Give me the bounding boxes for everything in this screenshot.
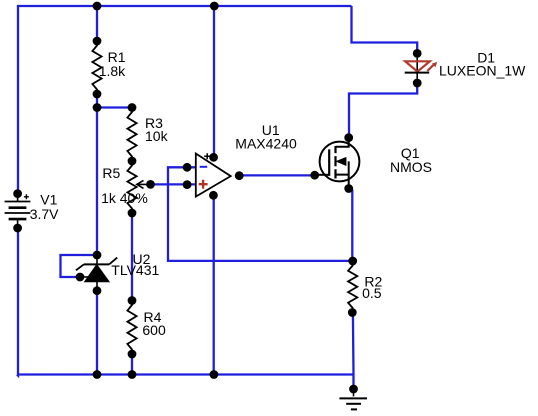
svg-text:NMOS: NMOS (390, 159, 432, 175)
wire op-amp output to Q1 gate (239, 174, 315, 176)
node Q1 drain (344, 133, 353, 142)
wire top rail corner to D1 anode (352, 6, 418, 53)
node bottom rail / op-amp supply (210, 370, 219, 379)
svg-text:TLV431: TLV431 (111, 262, 159, 278)
op-amp U1 (196, 153, 231, 196)
node bottom rail / U2 branch (93, 370, 102, 379)
node R4 top pin (128, 296, 137, 305)
LED D1 (405, 55, 438, 82)
resistor R2 (348, 261, 357, 313)
wire left rail upper (17, 5, 19, 194)
node ground junction (349, 385, 358, 394)
node R3 top pin (128, 103, 137, 112)
wire R5 wiper to op-amp plus input (151, 183, 196, 185)
wire left rail lower (17, 228, 18, 376)
svg-text:10k: 10k (145, 128, 169, 144)
svg-text:3.7V: 3.7V (30, 206, 59, 222)
node U2 cathode (93, 251, 102, 260)
resistor R1 (92, 41, 101, 94)
svg-text:1.8k: 1.8k (99, 63, 126, 79)
node op-amp V- pin (209, 191, 218, 200)
node R2 bottom pin (348, 308, 357, 317)
wire U2 ref feedback loop (61, 255, 98, 277)
node battery minus terminal (13, 224, 22, 233)
node R3/R5 junction (128, 157, 137, 166)
node R5 wiper (146, 180, 155, 189)
node top rail / op-amp supply (210, 2, 219, 11)
node bottom rail / R4 branch (128, 370, 137, 379)
node junction dots (13, 2, 421, 394)
wire top rail to R1 (96, 6, 98, 41)
node op-amp V+ pin (209, 153, 218, 162)
transistor Q1 (315, 138, 360, 189)
node op-amp plus input (183, 180, 192, 189)
wire Q1 source to R2 top (351, 190, 353, 261)
resistor R3 (127, 108, 136, 162)
node feedback / R2 top (348, 257, 357, 266)
svg-text:MAX4240: MAX4240 (235, 135, 297, 151)
node R5 bottom pin (128, 209, 137, 218)
wire R4 bottom to bottom rail (131, 354, 133, 375)
node Q1 source (344, 184, 353, 193)
wire R1 bottom to junction (96, 94, 98, 108)
wire top rail to op-amp V+ (213, 6, 215, 157)
svg-text:V1: V1 (40, 191, 57, 207)
svg-text:LUXEON_1W: LUXEON_1W (439, 62, 526, 78)
svg-text:0.5: 0.5 (362, 285, 382, 301)
wire top rail (17, 5, 352, 7)
node op-amp minus input (183, 163, 192, 172)
node D1 anode (413, 49, 422, 58)
wire R5 bottom to R4 top (131, 213, 133, 301)
node R4 bottom pin (128, 350, 137, 359)
node Q1 gate (310, 171, 319, 180)
ground (339, 389, 367, 409)
wire bottom rail (17, 373, 354, 375)
shunt regulator U2 TLV431 (76, 255, 117, 291)
battery V1 (5, 194, 31, 228)
node op-amp output (235, 171, 244, 180)
node R1/R3 branch junction (93, 103, 102, 112)
wire op-amp minus input feedback to R2 top node (168, 167, 353, 261)
wire op-amp V- to bottom rail (213, 195, 215, 374)
wire D1 cathode to Q1 drain (349, 83, 417, 138)
resistor R4 (127, 301, 136, 355)
node U2 ref (76, 273, 85, 282)
svg-text:600: 600 (142, 322, 166, 338)
wire R2 bottom to ground (352, 313, 355, 390)
svg-text:1k 40%: 1k 40% (101, 190, 148, 206)
node R1 top pin (93, 37, 102, 46)
wire junction down to U2 cathode (96, 108, 98, 256)
node U2 anode (93, 286, 102, 295)
node battery plus terminal (13, 189, 22, 198)
node D1 cathode (413, 79, 422, 88)
svg-text:R5: R5 (102, 165, 120, 181)
wire U2 anode to bottom rail (96, 291, 98, 375)
wire junction to R3 top (97, 106, 132, 108)
node R1 bottom pin (93, 90, 102, 99)
potentiometer R5 (127, 161, 136, 213)
node top rail / R1 (93, 2, 102, 11)
